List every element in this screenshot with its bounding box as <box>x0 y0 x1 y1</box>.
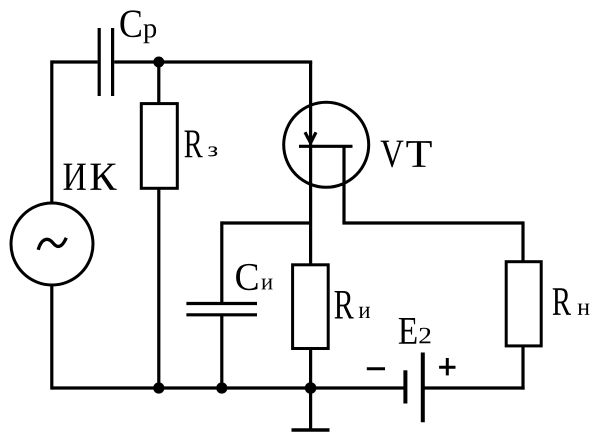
wire: ground bus bottom, left segment to battery minus plate <box>52 386 406 389</box>
capacitor Cи bottom plate <box>186 313 257 316</box>
wire: Cи bottom vertical to ground bus <box>220 315 223 388</box>
capacitor Cp left plate <box>98 28 101 96</box>
battery E2 positive long plate <box>421 353 425 423</box>
transistor VT circle <box>284 102 369 187</box>
junction node Rз / ground bus <box>153 382 164 393</box>
junction node at Cp / Rз / gate <box>153 57 164 68</box>
capacitor Cp right plate <box>111 28 114 96</box>
transistor VT gate arrow left stroke <box>305 132 310 142</box>
label ИК letter И <box>64 164 86 190</box>
wire: Rз bottom to ground bus <box>157 188 160 388</box>
battery E2 negative short plate <box>403 370 407 403</box>
label E2 subscript 2 <box>419 328 430 344</box>
junction node Cи / ground bus <box>216 382 227 393</box>
resistor Rи body <box>293 265 329 349</box>
label Си subscript и <box>261 279 272 290</box>
label VT letter V <box>381 141 404 168</box>
minus sign of battery polarity <box>367 367 385 370</box>
capacitor Cи top plate <box>186 302 257 305</box>
label Rи subscript и <box>359 307 370 318</box>
label Rн letter R <box>553 288 571 315</box>
plus sign of battery polarity, vertical stroke <box>446 358 449 375</box>
label Cр letter C <box>120 10 140 37</box>
wire: gate node down to resistor Rз <box>157 62 160 104</box>
junction node Rи / ground / bus <box>305 382 317 394</box>
transistor VT channel bar <box>299 145 353 148</box>
wire: gate vertical from top wire through VT down to Rи <box>309 62 312 265</box>
source ИК circle <box>11 203 93 285</box>
resistor Rн body <box>506 262 541 346</box>
transistor VT right lead down from channel bar <box>342 146 345 223</box>
wire: ground bus bottom, right segment battery plus plate to Rн <box>423 386 525 389</box>
label Rн subscript н <box>578 304 590 315</box>
label Си letter C <box>236 264 257 290</box>
wire: Cи top horizontal to source node <box>222 221 311 224</box>
label VT letter T <box>406 141 431 167</box>
label Rи letter R <box>335 291 354 319</box>
wire: Cи top vertical <box>220 221 223 303</box>
label E2 letter E <box>399 318 417 344</box>
wire: Rн bottom vertical to ground bus <box>521 346 524 390</box>
source ИК tilde symbol <box>38 238 66 250</box>
wire: Cp right plate to gate corner node <box>114 60 312 63</box>
label Cр subscript р <box>143 24 156 43</box>
wire: top-left horizontal, source to Cp left plate <box>52 60 98 63</box>
plus sign of battery polarity, horizontal stroke <box>439 366 455 369</box>
ground bar <box>292 428 330 432</box>
ground stem <box>309 388 312 430</box>
wire: ИК source bottom to ground bus <box>50 286 53 390</box>
label Rз letter R <box>185 131 203 158</box>
label ИК letter К <box>90 164 116 190</box>
wire: Rи bottom to ground bus <box>309 349 312 389</box>
label Rз subscript з <box>208 146 217 156</box>
wire: left vertical from top corner down to ИК source <box>50 60 53 203</box>
wire: VT right lead to Rн horizontal <box>342 221 523 224</box>
transistor VT gate arrow right stroke <box>311 132 316 142</box>
wire: Rн top vertical <box>521 221 524 261</box>
resistor Rз body <box>141 104 177 189</box>
